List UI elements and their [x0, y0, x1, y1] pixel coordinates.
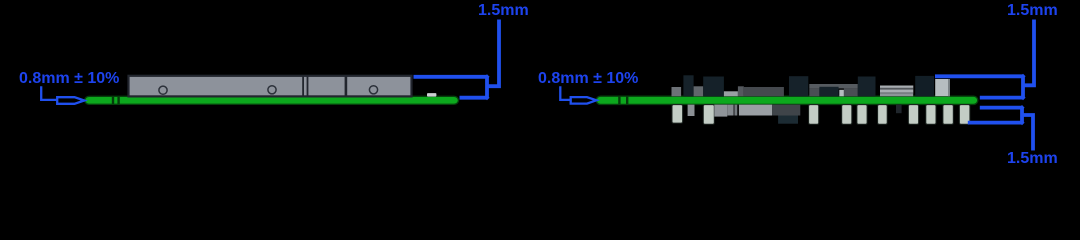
bottom component gray G2 — [714, 105, 727, 117]
top component gray B4 — [844, 88, 858, 96]
right top 1.5mm arrow top — [1020, 74, 1025, 79]
top component gray A3 — [694, 86, 704, 96]
right 0.8mm leader line — [560, 86, 570, 100]
bottom pin P4 — [842, 105, 852, 125]
top component gray B1 — [809, 88, 819, 96]
USB connector stripe dark 2 — [880, 92, 913, 93]
left 1.5mm dim arrow bottom — [484, 95, 489, 100]
bottom pin P2 — [703, 105, 714, 125]
top component light square B3 — [839, 90, 844, 97]
right PCB edge tick 2 — [626, 96, 628, 104]
right PCB edge tick 1 — [618, 96, 620, 104]
top component light strip A5 — [724, 91, 738, 96]
right bottom 1.5mm bracket vertical — [1020, 108, 1024, 123]
top component gray A1 — [672, 87, 682, 96]
bottom pin P7 — [908, 105, 918, 125]
BOOTSEL button edge — [948, 79, 950, 96]
bottom component dark bar G5 — [772, 105, 800, 116]
shield hole 2 — [268, 86, 276, 94]
USB connector stripe light 1 — [880, 86, 913, 88]
left 0.8mm fork arrow — [57, 97, 84, 104]
bottom pin P8 — [926, 105, 936, 125]
right bottom 1.5mm jog to text — [1022, 115, 1033, 151]
shield separator 1b — [307, 77, 309, 97]
top component dark D — [915, 76, 934, 96]
USB connector stripe dark 1 — [880, 88, 913, 90]
left small white pad — [427, 93, 436, 97]
bottom pin P9 — [943, 105, 953, 125]
right top 1.5mm bracket vertical — [1021, 76, 1025, 97]
right 0.8mm fork arrow — [571, 97, 597, 104]
right top 1.5mm arrow bottom — [1020, 95, 1025, 100]
right top 1.5mm jog to text — [1023, 20, 1034, 86]
bottom pin P1 — [672, 105, 683, 124]
left 1.5mm dim bracket vertical — [485, 77, 489, 98]
label right bottom 1.5mm — [1007, 151, 1058, 167]
right bottom 1.5mm extension line upper — [980, 106, 1022, 110]
USB connector stripe light 2 — [880, 90, 913, 93]
shield separator 1a — [302, 77, 304, 97]
top component dark B — [789, 76, 808, 96]
bottom small dark square — [896, 105, 902, 114]
left 1.5mm dim bottom extension line — [460, 96, 488, 100]
left shield block — [129, 76, 412, 97]
bottom pin P3 — [809, 105, 819, 125]
left PCB green bar — [85, 96, 459, 104]
bottom pin P6 — [878, 105, 888, 125]
bottom pin P5 — [857, 105, 867, 125]
USB connector body — [880, 86, 913, 97]
label right top 1.5mm — [1007, 3, 1058, 19]
shield hole 1 — [159, 86, 167, 94]
right PCB green bar — [596, 96, 978, 104]
right bottom 1.5mm arrow top — [1019, 105, 1024, 110]
top component dark A4 — [703, 77, 724, 97]
shield hole 3 — [369, 86, 377, 94]
right top 1.5mm extension line upper — [935, 74, 1023, 78]
top component gray A6 — [738, 86, 744, 96]
right bottom 1.5mm arrow bottom — [1019, 120, 1024, 125]
top component gray bar A7 — [744, 87, 784, 96]
bottom component gray G1 — [688, 105, 695, 116]
top component dark A2 — [683, 75, 693, 96]
shield separator 2 — [345, 77, 348, 97]
BOOTSEL button — [935, 79, 950, 96]
label left 0.8mm — [19, 71, 119, 87]
top component dark C — [858, 77, 876, 97]
bottom pin P10 — [959, 105, 970, 125]
label right 0.8mm — [538, 71, 638, 87]
right bottom 1.5mm extension line lower — [968, 121, 1022, 125]
label left 1.5mm — [478, 3, 529, 19]
bottom component dark navy G6 — [778, 116, 798, 124]
left 0.8mm leader line — [41, 86, 56, 100]
top component dark B2 — [819, 87, 838, 97]
left 1.5mm dim jog to text — [487, 20, 499, 87]
right top 1.5mm extension line lower — [980, 96, 1023, 100]
bottom component small gray — [734, 105, 737, 116]
top strip over group — [809, 84, 858, 88]
bottom component gray G3 — [727, 105, 733, 116]
left PCB edge tick 1 — [112, 96, 114, 104]
left PCB edge tick 2 — [117, 96, 119, 104]
left 1.5mm dim top extension line — [414, 75, 488, 79]
left 1.5mm dim arrow top — [484, 74, 489, 79]
bottom component light bar G4 — [739, 105, 772, 116]
